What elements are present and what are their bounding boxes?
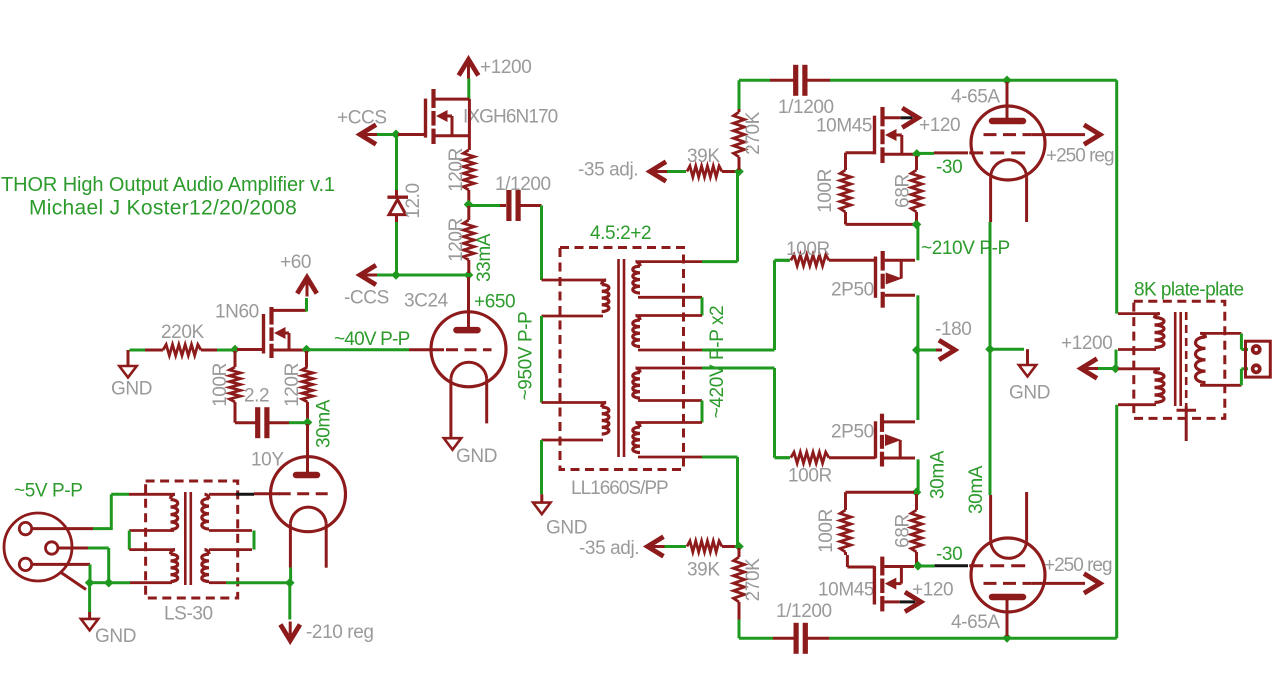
power arrow -35 adj bottom (649, 545, 665, 548)
node R (-30 bottom node) (913, 561, 923, 571)
wire LL1660 P2 bottom to ground (540, 440, 543, 494)
LL1660 secondary coil A (638, 260, 702, 263)
svg-text:100R: 100R (788, 466, 832, 487)
svg-text:GND: GND (546, 518, 587, 539)
svg-text:4-65A: 4-65A (951, 612, 1000, 633)
wire filament bus (989, 222, 992, 495)
10Y grid lead (254, 492, 280, 495)
wire secondary D bottom to bottom node (702, 456, 738, 459)
node C (10Y plate) (303, 418, 313, 428)
3C24 grid lead (409, 348, 444, 351)
wire pin2 down to node F (88, 547, 109, 550)
svg-text:39K: 39K (687, 146, 720, 167)
svg-text:12.0: 12.0 (403, 183, 424, 218)
XLR pin 1 (19, 522, 31, 534)
power arrow +250 reg top (1084, 125, 1100, 145)
svg-text:2.2: 2.2 (244, 386, 269, 407)
wire secondary C-D jumper (701, 401, 704, 423)
valve 3C24 (431, 312, 506, 387)
8K primary coil 2 (1118, 367, 1160, 370)
svg-text:4.5:2+2: 4.5:2+2 (590, 223, 651, 244)
svg-text:3C24: 3C24 (404, 291, 449, 312)
power arrow +1200 right (1082, 367, 1098, 370)
valve 10Y (271, 457, 346, 532)
svg-text:+650: +650 (474, 292, 515, 313)
wire LS-30 S2 bottom to node D (226, 581, 288, 584)
wire -CCS to node H (377, 274, 394, 277)
8K secondary coil (1200, 332, 1241, 335)
node A (1N60 gate) (230, 345, 240, 355)
capacitor 2.2 (255, 407, 260, 438)
capacitor 1/1200 mid (506, 190, 511, 221)
transformer LL1660 box (560, 248, 684, 470)
resistor 68R bottom (915, 494, 918, 510)
transformer LS-30 box (146, 481, 238, 598)
power arrow +120 top (902, 108, 918, 128)
node L (bottom bias node) (734, 542, 744, 552)
power arrow -CCS (361, 274, 377, 277)
node E (XLR gnd) (85, 578, 95, 588)
ground symbol GND2 below XLR (88, 612, 91, 619)
wire secondary B bottom to upper gate (702, 349, 775, 352)
wire -35 arrow to 39K bottom (665, 545, 687, 548)
terminal circle bottom (1251, 363, 1262, 374)
svg-text:GND: GND (111, 379, 152, 400)
10M45 bottom drain stub (884, 600, 899, 603)
resistor 270K bottom (738, 548, 741, 557)
svg-text:1N60: 1N60 (215, 302, 259, 323)
node B (1N60 source) (302, 345, 312, 355)
wire +1200 to IXGH drain (467, 79, 470, 100)
resistor 39K bottom (687, 541, 722, 552)
LS-30 primary coil 2 (129, 548, 174, 551)
wire -35 arrow to 39K top (667, 170, 686, 173)
svg-text:33mA: 33mA (474, 233, 495, 282)
valve 4-65A bottom (971, 538, 1045, 612)
svg-text:GND: GND (95, 626, 136, 647)
svg-text:100R: 100R (786, 239, 830, 260)
svg-text:100R: 100R (815, 169, 836, 213)
svg-text:30mA: 30mA (966, 465, 987, 514)
wire node I to 3C24 plate (467, 277, 470, 329)
transistor 1N60 (269, 307, 273, 325)
resistor 120R upper (463, 150, 474, 190)
svg-text:30mA: 30mA (928, 450, 949, 499)
10Y filament right leg (325, 523, 328, 568)
wire -180 rail down (916, 352, 919, 420)
svg-text:~5V P-P: ~5V P-P (14, 481, 83, 502)
power arrow -180 (939, 340, 955, 360)
4-65A top plate lead (1006, 82, 1009, 118)
svg-text:+CCS: +CCS (337, 108, 387, 129)
XLR pin 3 (19, 558, 31, 570)
svg-text:100R: 100R (210, 363, 231, 407)
resistor 100R input (234, 351, 237, 367)
svg-text:+120: +120 (919, 115, 960, 136)
svg-text:~950V P-P: ~950V P-P (516, 312, 537, 401)
10Y filament left leg (289, 523, 292, 567)
wire secondary A-B jumper (701, 297, 704, 315)
resistor 100R horiz bottom (775, 456, 791, 459)
svg-text:+250 reg: +250 reg (1044, 555, 1112, 576)
wire node N to 4-65A grid (919, 152, 934, 155)
XLR pin 2 (46, 542, 58, 554)
svg-text:THOR High Output Audio Amplifi: THOR High Output Audio Amplifier v.1 (1, 174, 335, 196)
wire LL1660 P1-P2 jumper (540, 316, 543, 403)
svg-text:1/1200: 1/1200 (776, 601, 832, 622)
node T (filament gnd tee) (985, 344, 995, 354)
svg-text:120R: 120R (282, 363, 303, 407)
wire zener to node H (395, 222, 398, 273)
svg-text:120R: 120R (446, 148, 467, 192)
wire node P to -180 arrow (919, 349, 936, 352)
wire 2P50 top source down (916, 295, 919, 348)
wire top rail right (807, 79, 830, 82)
node P (-180 node) (912, 345, 922, 355)
4-65A top filament right leg (1025, 178, 1028, 222)
svg-text:1/1200: 1/1200 (495, 174, 551, 195)
wire top node up to rail (738, 80, 741, 109)
XLR pin2 lead (58, 547, 88, 550)
node H (gate bus bottom) (391, 270, 401, 280)
transistor 10M45 top (880, 107, 884, 126)
4-65A top g2 lead to +250 (1032, 133, 1085, 136)
resistor 270K top (738, 108, 741, 112)
8K primary coil 1 (1118, 312, 1160, 315)
wire 8K secondary bottom to terminal (1240, 369, 1243, 386)
wire +1200 to node U (1098, 367, 1113, 370)
svg-text:+60: +60 (280, 252, 311, 273)
svg-text:-35 adj.: -35 adj. (578, 160, 638, 181)
LL1660 secondary coil D (638, 421, 702, 424)
node D (cathode) (285, 578, 295, 588)
power arrow -35 adj top (651, 170, 667, 173)
transformer 8K box (1134, 301, 1225, 418)
wire node C to 10Y plate (306, 424, 309, 473)
svg-text:+1200: +1200 (1061, 333, 1112, 354)
wire 8K center tap jumper (1115, 350, 1118, 369)
wire top rail to right corner (1009, 79, 1117, 82)
wire node F to LS-30 P2 bottom (110, 581, 130, 584)
4-65A top filament dome (991, 160, 1027, 178)
svg-text:GND: GND (456, 446, 497, 467)
resistor 100R vert top (840, 170, 851, 212)
XLR pin1 lead (32, 527, 93, 530)
wire 220K to node A (217, 349, 233, 352)
wire pin3 down to node E (89, 564, 92, 581)
node K (top bias node) (734, 167, 744, 177)
svg-text:~210V P-P: ~210V P-P (921, 238, 1010, 259)
zener diode 12.0 (395, 190, 398, 196)
svg-text:4-65A: 4-65A (951, 87, 1000, 108)
10Y grid dashes (279, 492, 332, 495)
power arrow +1200 top (467, 61, 470, 79)
resistor 39K top (687, 166, 722, 177)
LL1660 secondary coil B (638, 314, 702, 317)
speaker terminal block (1246, 341, 1271, 377)
wire secondary C top to lower gate (702, 367, 775, 370)
LS-30 secondary coil 1 (209, 493, 236, 496)
svg-text:68R: 68R (893, 514, 914, 548)
node Q (lower 68R top) (912, 487, 922, 497)
4-65A bottom filament right leg (1025, 492, 1028, 540)
node O (upper 2P50 drain node) (912, 220, 922, 230)
4-65A bottom filament left leg (989, 495, 992, 540)
svg-text:220K: 220K (161, 322, 205, 343)
wire pin1 to LS-30 P1 top (93, 527, 111, 530)
ground symbol GND1 near 220K (127, 350, 130, 366)
svg-text:-35 adj.: -35 adj. (579, 538, 639, 559)
power arrow +120 bottom (905, 592, 921, 612)
wire IXGH drain vertical (468, 99, 471, 150)
node M (top tube plate) (1002, 76, 1012, 86)
svg-text:+1200: +1200 (480, 57, 531, 78)
wire node E to node F (91, 581, 107, 584)
wire node R to 4-65A grid (920, 565, 935, 568)
svg-text:~420V P-P x2: ~420V P-P x2 (707, 306, 728, 419)
wire secondary A top to top node (702, 260, 738, 263)
wire node T to GND5 (992, 348, 1024, 351)
wire 8K secondary top to terminal (1240, 333, 1243, 349)
svg-text:30mA: 30mA (314, 399, 335, 448)
wire node A to 1N60 gate (237, 348, 264, 351)
LS-30 core (184, 492, 187, 585)
8K core (1174, 312, 1177, 406)
wire cap 2.2 to node C (289, 421, 304, 424)
wire node B to 3C24 grid (309, 348, 409, 351)
resistor 220K (145, 349, 163, 352)
svg-text:2P50: 2P50 (831, 422, 874, 443)
wire node O to 2P50 drain (916, 226, 919, 260)
node N (-30 top node) (912, 149, 922, 159)
ground symbol GND3 below 3C24 (444, 438, 461, 450)
svg-text:10M45: 10M45 (818, 580, 874, 601)
wire 10Y cathode down (289, 568, 292, 581)
4-65A bottom plate lead (1006, 600, 1009, 636)
svg-text:10Y: 10Y (251, 450, 284, 471)
capacitor 1/1200 bottom (794, 623, 799, 654)
svg-text:10M45: 10M45 (816, 116, 872, 137)
resistor 120R input (305, 351, 308, 367)
ground symbol GND4 below LL1660 (540, 494, 543, 502)
LS-30 secondary coil 2 (209, 548, 252, 551)
svg-text:GND: GND (1009, 383, 1050, 404)
LL1660 primary coil 2 (542, 401, 607, 404)
LS-30 primary coil 1 (129, 493, 174, 496)
node G (gate bus top) (391, 130, 401, 140)
4-65A top g2 dashes (984, 133, 1032, 136)
wire bottom rail to right corner (1009, 637, 1117, 640)
transistor 2P50 top (881, 251, 885, 271)
wire GND1 to R 220K (130, 349, 164, 352)
node J (cap node) (464, 200, 474, 210)
4-65A top g1 dashes (969, 151, 1032, 154)
svg-text:~40V P-P: ~40V P-P (334, 329, 410, 350)
svg-text:2P50: 2P50 (831, 280, 874, 301)
XLR connector shell (4, 513, 72, 581)
wire cap to LL1660 P1 top (519, 204, 542, 207)
svg-text:270K: 270K (743, 558, 764, 602)
3C24 grid dashes (446, 348, 492, 351)
power arrow -210 reg (289, 622, 292, 640)
LS-30 primary jumper (128, 531, 131, 550)
resistor 100R vert bottom (846, 491, 915, 494)
LS-30 secondary jumper (253, 531, 256, 550)
wire bottom rail right (807, 637, 829, 640)
svg-text:120R: 120R (446, 218, 467, 262)
wire node E to ground (88, 584, 91, 612)
power arrow +250 reg bottom (1084, 574, 1100, 594)
10M45 top drain stub (885, 116, 901, 119)
wire node H to node I (398, 274, 466, 277)
svg-text:Michael J Koster12/20/2008: Michael J Koster12/20/2008 (29, 197, 297, 220)
wire 1N60 drain up (305, 298, 308, 312)
svg-text:8K plate-plate: 8K plate-plate (1134, 280, 1244, 301)
transistor 2P50 bottom (880, 414, 884, 432)
wire top rail left (739, 79, 770, 82)
svg-text:LS-30: LS-30 (164, 604, 213, 625)
svg-text:IXGH6N170: IXGH6N170 (463, 107, 558, 128)
node F (P2 bottom) (104, 578, 114, 588)
svg-text:-30: -30 (936, 157, 962, 178)
ground symbol GND5 (1026, 349, 1029, 365)
wire node G to IXGH gate (398, 133, 426, 136)
3C24 filament left leg (449, 378, 452, 438)
svg-text:-180: -180 (935, 319, 971, 340)
power arrow +60 (306, 279, 309, 297)
wire node J to cap 1/1200 (471, 204, 500, 207)
4-65A bottom g2 dashes (984, 582, 1032, 585)
svg-text:LL1660S/PP: LL1660S/PP (571, 478, 668, 499)
svg-text:100R: 100R (816, 509, 837, 553)
capacitor 1/1200 top (793, 65, 798, 96)
4-65A bottom g2 lead to +250 (1032, 582, 1085, 585)
LL1660 core (617, 259, 620, 457)
3C24 filament right leg (485, 378, 488, 423)
XLR pin3 lead (32, 563, 90, 566)
wire 270K bottom to bottom cap (738, 620, 741, 639)
resistor 100R horiz top (775, 259, 791, 262)
svg-text:39K: 39K (687, 560, 720, 581)
4-65A bottom g1 dashes (969, 564, 1032, 567)
resistor 120R lower (467, 206, 470, 220)
wire node G down to zener (395, 136, 398, 190)
4-65A bottom filament dome (991, 540, 1027, 558)
svg-text:+120: +120 (912, 580, 953, 601)
node U (8K center tap) (1111, 364, 1121, 374)
8K shield lead (1185, 406, 1188, 441)
svg-text:270K: 270K (743, 111, 764, 155)
wire node D down (288, 584, 291, 620)
wire 10M45 bottom gate (847, 566, 874, 569)
valve 4-65A top (971, 106, 1045, 180)
terminal circle top (1251, 344, 1262, 355)
transistor 10M45 bottom (880, 557, 884, 576)
wire 10M45 top gate (846, 151, 875, 154)
resistor 68R top (915, 156, 918, 170)
svg-text:68R: 68R (893, 174, 914, 208)
svg-text:-CCS: -CCS (344, 288, 389, 309)
node I (3C24 plate node) (464, 270, 474, 280)
LL1660 secondary coil C (638, 367, 702, 370)
wire 2P50 bottom drain down (917, 459, 920, 490)
4-65A top filament left leg (989, 178, 992, 222)
LL1660 primary coil 1 (542, 279, 607, 282)
svg-text:-210 reg: -210 reg (306, 622, 374, 643)
node S (bottom tube plate) (1002, 633, 1012, 643)
wire +CCS to node G (377, 133, 394, 136)
power arrow +CCS (361, 133, 377, 136)
XLR shell tab (61, 573, 86, 590)
transistor IXGH6N170 (431, 89, 435, 108)
svg-text:+250 reg: +250 reg (1046, 146, 1114, 167)
svg-text:-30: -30 (936, 544, 962, 565)
